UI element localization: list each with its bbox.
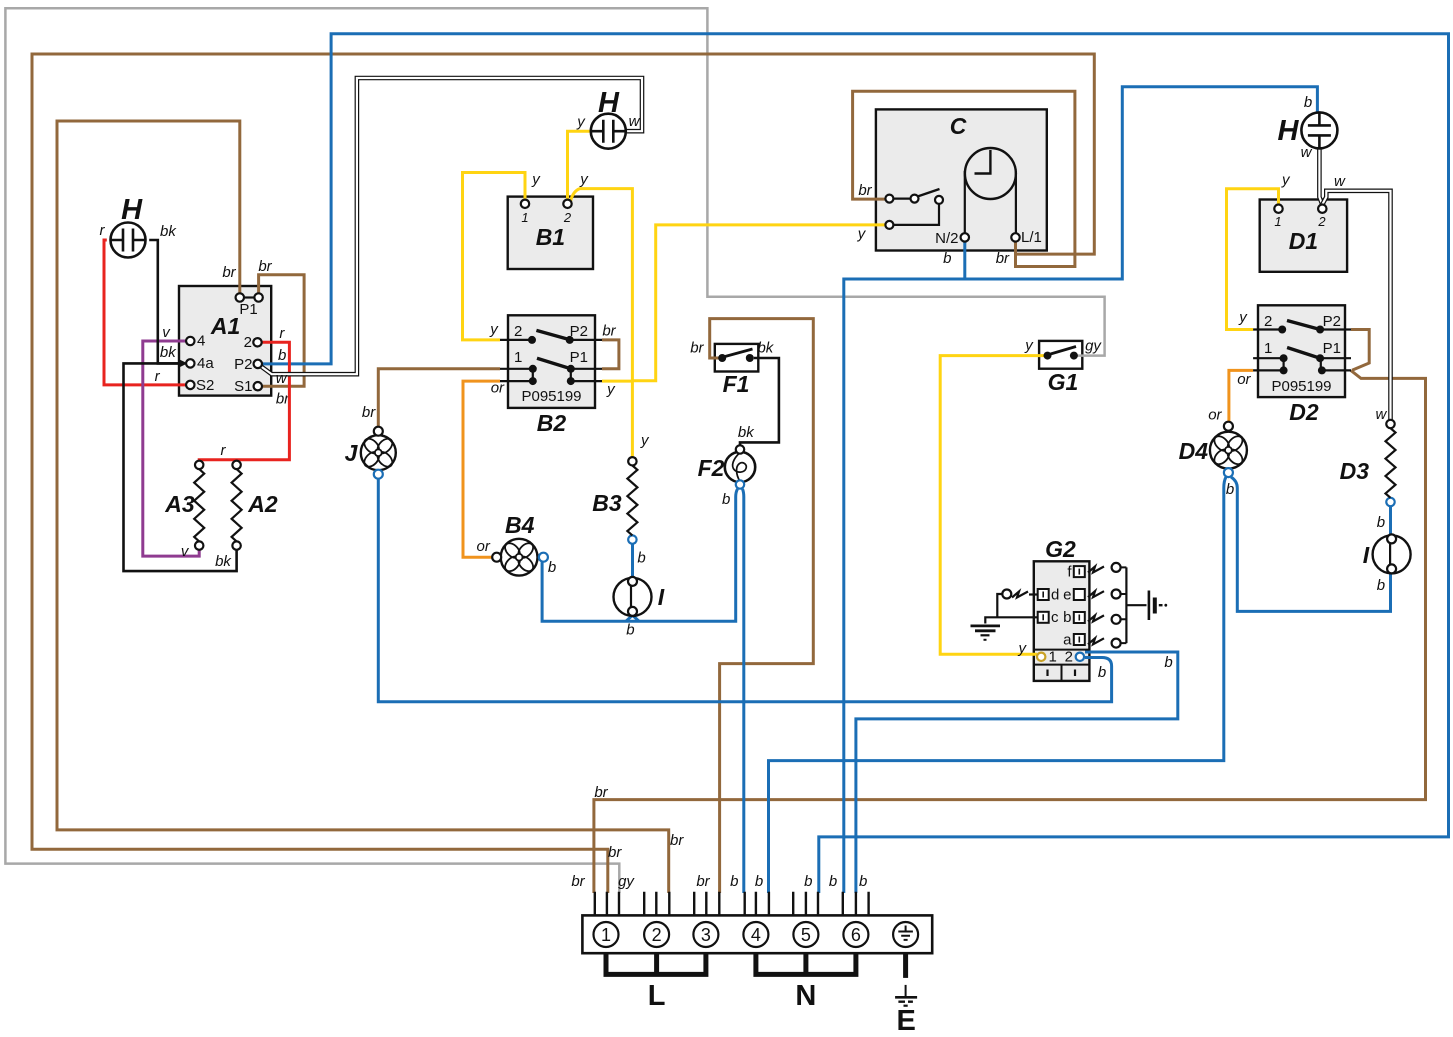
- svg-text:I: I: [658, 584, 665, 610]
- svg-text:or: or: [1208, 407, 1222, 424]
- svg-text:2: 2: [652, 925, 662, 945]
- bridge L terminals 1-3: [606, 953, 706, 1012]
- lamp H right selector D1 body: [1260, 200, 1347, 272]
- svg-text:4a: 4a: [197, 355, 214, 372]
- svg-text:S2: S2: [196, 377, 214, 394]
- wire brown: terminal 1 to timer C L/1 (top bus): [32, 54, 1094, 893]
- wire blue: fan D4 to terminal 4: [755, 477, 1234, 893]
- wire white: lamp H right to D1 pin 2: [1301, 144, 1323, 205]
- switch F1 body: [715, 344, 759, 372]
- svg-text:C: C: [950, 113, 967, 139]
- G2 pin row: [1034, 649, 1090, 666]
- svg-text:B2: B2: [537, 410, 567, 436]
- switch F1 contacts: [718, 349, 754, 397]
- svg-text:1: 1: [1049, 649, 1057, 666]
- switch D2 contacts: [1253, 321, 1351, 426]
- G2 terminal a: [1063, 632, 1085, 649]
- svg-text:or: or: [1237, 371, 1251, 388]
- svg-text:N: N: [795, 980, 816, 1012]
- wire white: D1 pin 2 to D3: [1322, 173, 1390, 423]
- wire yellow: D1 pin 1 to D2 contact 2: [1227, 172, 1292, 330]
- svg-text:bk: bk: [215, 553, 232, 570]
- wire brown: fan J to B2 contact 1: [362, 369, 500, 427]
- svg-text:d: d: [1051, 587, 1059, 604]
- svg-text:2: 2: [1317, 214, 1326, 229]
- wire black: A2 to A1 contact 4a: [124, 363, 237, 571]
- svg-text:G1: G1: [1048, 369, 1079, 395]
- svg-text:5: 5: [801, 925, 811, 945]
- svg-text:y: y: [1238, 309, 1248, 326]
- wire brown: A1 P1 to S1 bracket: [258, 258, 304, 408]
- svg-text:br: br: [858, 182, 872, 199]
- wire red: lamp H left to A1 S2: [100, 222, 187, 385]
- svg-text:D3: D3: [1340, 458, 1370, 484]
- svg-text:r: r: [279, 325, 285, 342]
- wire brown: B2 P2 to P1 loop: [602, 323, 619, 369]
- svg-text:b: b: [548, 559, 556, 576]
- svg-text:A1: A1: [210, 313, 240, 339]
- svg-text:1: 1: [1264, 340, 1272, 357]
- svg-text:6: 6: [851, 925, 861, 945]
- svg-text:bk: bk: [160, 344, 177, 361]
- svg-text:J: J: [345, 440, 359, 466]
- wire blue: D3 to motor I right: [1377, 506, 1391, 534]
- svg-text:B1: B1: [536, 224, 565, 250]
- svg-text:P1: P1: [239, 301, 257, 318]
- bridge N terminals 4-6: [756, 953, 856, 1012]
- svg-text:b: b: [804, 873, 812, 890]
- wire brown: D2 P1 to terminal 1 (bottom bus): [594, 371, 1426, 893]
- selector B1 body: [508, 197, 593, 269]
- svg-text:bk: bk: [160, 223, 177, 240]
- G2 terminal d: [1038, 587, 1060, 604]
- fan D4: [1179, 422, 1247, 477]
- svg-text:F2: F2: [698, 455, 725, 481]
- svg-text:N/2: N/2: [935, 230, 958, 247]
- wire brown: timer C L/1 loop around C to br contact: [853, 91, 1075, 267]
- wire yellow: B1 pin 2 to junction and B3: [571, 171, 651, 457]
- svg-text:2: 2: [244, 334, 252, 351]
- svg-text:P2: P2: [234, 356, 252, 373]
- svg-text:y: y: [579, 171, 589, 188]
- svg-text:2: 2: [1065, 649, 1073, 666]
- svg-text:B4: B4: [505, 512, 535, 538]
- svg-text:H: H: [598, 87, 620, 119]
- svg-text:D1: D1: [1289, 228, 1318, 254]
- switch B2 body: [508, 315, 595, 408]
- wire blue: fan D4 to motor I right: [1231, 477, 1391, 611]
- svg-text:b: b: [637, 550, 645, 567]
- timer C internals: [885, 148, 1041, 247]
- wire brown: F1 to terminal 3: [690, 319, 813, 893]
- svg-text:y: y: [606, 381, 616, 398]
- svg-text:y: y: [489, 321, 499, 338]
- svg-text:P1: P1: [1323, 340, 1341, 357]
- wire blue: F2 to terminal 4: [730, 489, 744, 893]
- svg-text:w: w: [276, 370, 288, 387]
- wire blue: timer N/2 to lamp H right and terminal 6: [829, 87, 1317, 893]
- selector B1 pins: [521, 200, 572, 208]
- wire black: F1 to F2: [738, 340, 779, 446]
- svg-text:b: b: [1164, 654, 1172, 671]
- svg-text:I: I: [1363, 542, 1370, 568]
- svg-text:br: br: [258, 258, 272, 275]
- wire brown: terminal 2 to A1 P1: [57, 121, 684, 893]
- G2 terminal f: [1067, 564, 1084, 581]
- switch D2 body: [1258, 305, 1345, 397]
- svg-text:r: r: [100, 222, 106, 239]
- svg-text:2: 2: [514, 323, 522, 340]
- svg-text:br: br: [594, 784, 608, 801]
- svg-text:b: b: [829, 873, 837, 890]
- svg-text:w: w: [629, 113, 641, 130]
- G2 terminal e: [1063, 587, 1085, 604]
- svg-text:L: L: [648, 980, 666, 1012]
- svg-text:D4: D4: [1179, 438, 1209, 464]
- svg-text:br: br: [222, 264, 236, 281]
- svg-text:y: y: [576, 114, 586, 131]
- wire blue: G2 pin 2 to terminal 6: [856, 652, 1178, 893]
- svg-text:b: b: [1063, 609, 1071, 626]
- selector D1 pins: [1274, 205, 1326, 213]
- svg-text:1: 1: [514, 349, 522, 366]
- svg-text:y: y: [1281, 172, 1291, 189]
- svg-text:F1: F1: [723, 371, 750, 397]
- G2 terminal c: [1038, 609, 1059, 626]
- switch G1 body: [1039, 341, 1082, 369]
- lamp F2: [698, 445, 756, 488]
- svg-text:2: 2: [563, 210, 572, 225]
- svg-text:D2: D2: [1289, 399, 1319, 425]
- svg-text:b: b: [626, 622, 634, 639]
- svg-text:br: br: [696, 873, 710, 890]
- svg-text:1: 1: [521, 210, 528, 225]
- svg-text:A3: A3: [164, 491, 195, 517]
- wire violet: A1 contact 4 to A3: [143, 324, 199, 560]
- svg-text:or: or: [477, 538, 491, 555]
- svg-text:gy: gy: [618, 873, 635, 890]
- wire yellow: G1 to G2 pin 1: [940, 337, 1045, 657]
- svg-text:P095199: P095199: [521, 388, 581, 405]
- svg-text:b: b: [730, 873, 738, 890]
- svg-text:H: H: [1278, 115, 1300, 147]
- wire blue: fan J to G2 pin 2: [378, 478, 1111, 702]
- svg-text:b: b: [755, 873, 763, 890]
- svg-text:y: y: [640, 432, 650, 449]
- wire brown: D2 P2 to P1 loop: [1351, 330, 1369, 371]
- svg-text:4: 4: [751, 925, 761, 945]
- svg-text:bk: bk: [757, 340, 774, 357]
- svg-text:3: 3: [701, 925, 711, 945]
- svg-text:A2: A2: [247, 491, 278, 517]
- svg-text:br: br: [571, 873, 585, 890]
- resistor A2: [232, 461, 278, 550]
- wire yellow: B2 P1 to junction: [602, 381, 632, 398]
- svg-text:r: r: [155, 368, 161, 385]
- svg-text:w: w: [1375, 406, 1387, 423]
- svg-text:y: y: [531, 171, 541, 188]
- svg-text:4: 4: [197, 333, 205, 350]
- svg-text:S1: S1: [234, 378, 252, 395]
- svg-text:br: br: [608, 844, 622, 861]
- svg-text:y: y: [1024, 337, 1034, 354]
- fan J: [345, 427, 396, 479]
- motor I right: [1363, 534, 1411, 573]
- switch G1 contacts: [1044, 347, 1079, 396]
- svg-text:br: br: [996, 250, 1010, 267]
- wire yellow: timer C to junction: [632, 225, 885, 381]
- svg-text:c: c: [1051, 609, 1059, 626]
- svg-text:a: a: [1063, 632, 1072, 649]
- svg-text:bk: bk: [738, 424, 755, 441]
- svg-text:2: 2: [1264, 313, 1272, 330]
- relay A1 pins: [186, 293, 263, 390]
- wire gray gy: G1 to terminal block 1: [5, 8, 1104, 893]
- svg-text:P095199: P095199: [1271, 378, 1331, 395]
- svg-text:br: br: [362, 404, 376, 421]
- svg-text:v: v: [162, 324, 171, 341]
- terminal strip: [582, 892, 932, 953]
- wire orange: B2 to fan B4: [463, 380, 505, 558]
- wire white: A1 P2 to lamp H mid: [261, 78, 642, 387]
- suppressor at G2 right: [1088, 563, 1167, 648]
- svg-text:b: b: [859, 873, 867, 890]
- svg-text:b: b: [1098, 664, 1106, 681]
- junction arrow at A1 contact 4a: [179, 359, 188, 367]
- relay A1 body: [179, 286, 271, 396]
- motor I left: [614, 577, 665, 616]
- resistor D3: [1340, 420, 1396, 506]
- svg-text:G2: G2: [1045, 536, 1076, 562]
- wire black: lamp H left to A1 contact 4a: [149, 240, 180, 363]
- G2 terminal b: [1063, 609, 1085, 626]
- wire blue: F2 to B4 and motor I left: [542, 489, 737, 639]
- wire red: A1 contact 2 to A2/A3: [199, 325, 289, 461]
- svg-text:br: br: [670, 832, 684, 849]
- resistor A3: [164, 461, 204, 550]
- svg-text:br: br: [602, 323, 616, 340]
- resistor B3: [592, 457, 637, 544]
- svg-text:br: br: [690, 340, 704, 357]
- fan B4: [492, 512, 548, 576]
- svg-text:b: b: [722, 491, 730, 508]
- svg-text:y: y: [857, 226, 867, 243]
- wire yellow: B1 pin 2 to lamp H mid: [568, 114, 591, 200]
- wire yellow: B1 pin 1 to B2 contact 2: [463, 171, 542, 340]
- wire blue: B3 to motor I left: [633, 544, 646, 579]
- svg-text:b: b: [1377, 514, 1385, 531]
- svg-text:e: e: [1063, 587, 1071, 604]
- svg-text:w: w: [1334, 173, 1346, 190]
- svg-text:P1: P1: [570, 349, 588, 366]
- lamp H right: [1278, 112, 1338, 148]
- G2 fuse row: [1034, 665, 1090, 681]
- switch B2 contacts: [500, 330, 602, 436]
- timer C body: [876, 109, 1047, 250]
- ground at G2 left: [971, 590, 1039, 640]
- svg-text:B3: B3: [592, 490, 622, 516]
- lamp H mid: [591, 87, 626, 149]
- svg-text:b: b: [278, 347, 286, 364]
- svg-text:P2: P2: [1323, 313, 1341, 330]
- ignition unit G2 body: [1034, 536, 1090, 681]
- svg-text:1: 1: [601, 925, 611, 945]
- svg-text:gy: gy: [1085, 338, 1102, 355]
- svg-text:b: b: [1226, 481, 1234, 498]
- svg-text:H: H: [121, 194, 143, 226]
- wire blue: A1 P2 to terminal 5 (outer bus): [262, 34, 1449, 893]
- lamp H left: [111, 194, 178, 258]
- svg-text:r: r: [221, 442, 227, 459]
- earth E: [895, 953, 917, 1037]
- svg-text:b: b: [943, 250, 951, 267]
- svg-text:E: E: [897, 1005, 916, 1037]
- svg-text:b: b: [1304, 94, 1312, 111]
- svg-text:b: b: [1377, 577, 1385, 594]
- svg-text:y: y: [1018, 640, 1028, 657]
- svg-text:L/1: L/1: [1021, 229, 1042, 246]
- svg-text:1: 1: [1274, 214, 1281, 229]
- wire orange: D2 to fan D4: [1208, 370, 1253, 423]
